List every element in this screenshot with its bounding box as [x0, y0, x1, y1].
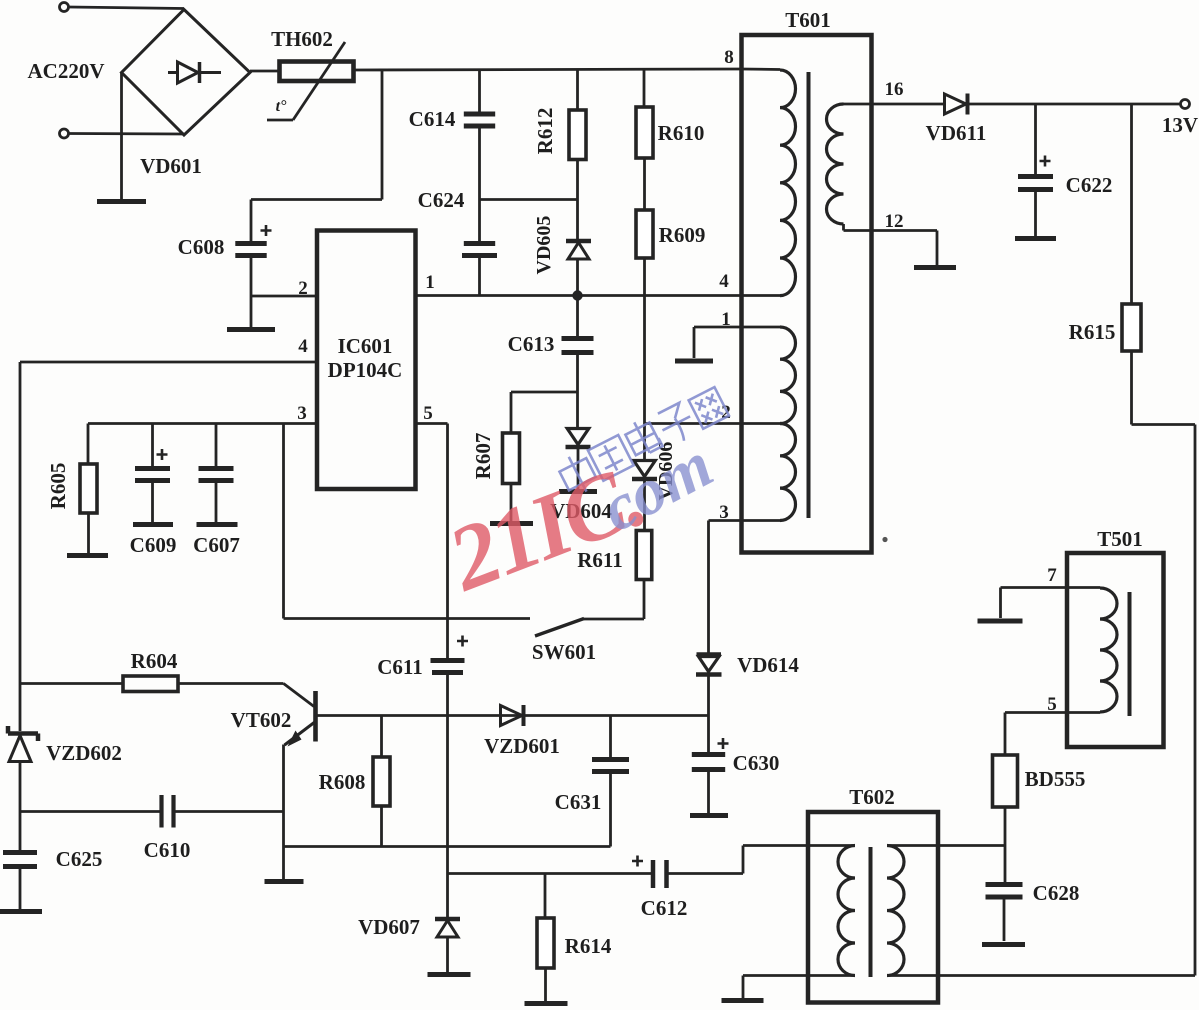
- svg-text:VD601: VD601: [140, 154, 202, 178]
- svg-text:VZD601: VZD601: [484, 734, 560, 758]
- svg-text:R609: R609: [659, 223, 706, 247]
- diode VD604: [567, 429, 589, 445]
- capacitor C612 plus: [632, 856, 643, 867]
- wire IC pin 5: [416, 422, 448, 425]
- resistor R609: [636, 210, 653, 258]
- wire C610 left: [20, 810, 160, 813]
- ground (R605): [67, 553, 108, 558]
- wire C608 to ground: [250, 258, 253, 327]
- T501 pin 7 wire: [1001, 586, 1068, 589]
- wire IC pin 1 to T601 pin 4: [416, 294, 781, 297]
- wire C607 down: [215, 483, 218, 522]
- T501 winding: [1067, 586, 1100, 589]
- capacitor C614: [464, 112, 495, 117]
- capacitor C611 plus: [457, 636, 468, 647]
- wire C614 to C624: [478, 128, 481, 241]
- capacitor C630 plus: [718, 738, 729, 749]
- diode VD606: [634, 461, 656, 477]
- wire C614 drop: [478, 70, 481, 112]
- wire main top rail: [354, 69, 742, 70]
- svg-text:8: 8: [724, 47, 734, 68]
- ground (C608): [227, 327, 275, 332]
- wire C630 down: [707, 772, 710, 813]
- T601 core: [807, 72, 811, 518]
- node junction pin1/VD605: [572, 290, 582, 300]
- wire VD604 tail: [577, 449, 580, 489]
- resistor R612: [569, 110, 586, 160]
- ground (R614): [525, 1001, 568, 1006]
- resistor R604: [123, 676, 178, 692]
- svg-text:R614: R614: [565, 934, 612, 958]
- T601 pin 2 wire: [645, 422, 781, 425]
- svg-text:C607: C607: [193, 533, 240, 557]
- svg-text:C630: C630: [733, 751, 780, 775]
- watermark 中国电子网: [555, 383, 730, 499]
- wire switch feed: [282, 424, 285, 619]
- wire T601 pin 3: [709, 519, 742, 522]
- wire mid rail: [284, 845, 611, 848]
- wire C610 right: [176, 810, 284, 813]
- transformer T601 box: [742, 35, 872, 553]
- svg-text:R604: R604: [131, 649, 178, 673]
- capacitor C612: [651, 860, 656, 888]
- svg-text:C622: C622: [1066, 173, 1113, 197]
- terminal bar (C625): [0, 909, 42, 914]
- wire C612 to T602: [669, 872, 744, 875]
- diode VD611: [945, 94, 967, 114]
- wire emitter down: [282, 745, 285, 880]
- T601 lower winding lower: [780, 424, 796, 521]
- wire bridge to TH602: [250, 70, 280, 73]
- T601 pin 1 wire: [694, 326, 742, 329]
- node AC input terminal (bottom): [60, 129, 69, 138]
- svg-text:C611: C611: [377, 655, 423, 679]
- resistor R608: [373, 757, 390, 806]
- diode VD605: [566, 239, 591, 244]
- T601 primary winding: [742, 68, 781, 71]
- svg-text:1: 1: [721, 309, 731, 330]
- diode VD607: [435, 917, 460, 922]
- svg-text:2: 2: [298, 278, 308, 299]
- wire IC pin 2: [251, 295, 317, 298]
- wire C609 down: [151, 483, 154, 522]
- ground (T601 pin12): [914, 265, 956, 270]
- zener diode VZD602: [8, 731, 38, 736]
- wire R607 tail: [510, 484, 513, 522]
- svg-text:4: 4: [719, 271, 729, 292]
- transformer T602 box: [808, 812, 938, 1003]
- svg-text:VT602: VT602: [231, 708, 292, 732]
- capacitor C610: [159, 795, 163, 828]
- wire bridge to ground: [120, 73, 123, 199]
- capacitor C631: [592, 757, 629, 762]
- svg-text:R607: R607: [471, 433, 495, 480]
- wire R610 drop: [643, 69, 646, 107]
- svg-text:VD607: VD607: [358, 915, 420, 939]
- wire R607 top: [511, 391, 578, 394]
- wire rail drop x382: [381, 70, 384, 200]
- diode VD614: [697, 652, 722, 657]
- svg-text:VD611: VD611: [926, 121, 987, 145]
- thermistor TH602 body: [280, 62, 354, 82]
- terminal bar (VD604): [559, 489, 597, 494]
- wire output rail: [968, 103, 1181, 106]
- speck: [882, 537, 887, 542]
- wire C622 drop: [1034, 104, 1037, 174]
- svg-text:1: 1: [425, 272, 435, 293]
- resistor R615: [1122, 304, 1141, 351]
- op-amp IC601 DP104C box: [317, 231, 416, 490]
- svg-text:T601: T601: [785, 8, 831, 32]
- thermistor TH602 strike: [293, 42, 345, 120]
- wire C631 down: [609, 774, 612, 847]
- bridge rectifier VD601 diamond: [122, 10, 251, 136]
- resistor R605: [80, 464, 97, 513]
- svg-text:BD555: BD555: [1025, 767, 1086, 791]
- capacitor C608: [235, 241, 266, 246]
- svg-text:C624: C624: [418, 188, 465, 212]
- resistor R610: [636, 107, 653, 158]
- wire BD555 down: [1004, 807, 1007, 882]
- ground (T501 pin7): [978, 619, 1023, 624]
- resistor R611: [636, 531, 652, 580]
- wire C631 drop: [609, 716, 612, 758]
- svg-text:T602: T602: [849, 785, 895, 809]
- wire R614 drop: [544, 874, 547, 919]
- wire IC pin 3: [88, 422, 317, 425]
- svg-text:R608: R608: [319, 770, 366, 794]
- zener diode VZD601: [501, 706, 523, 726]
- switch SW601 blade: [535, 619, 584, 637]
- ground (C630): [690, 813, 728, 818]
- capacitor C609 plus: [157, 449, 168, 460]
- capacitor C611: [431, 658, 465, 663]
- wire R604 to base: [178, 682, 284, 685]
- wire C628 down: [1003, 900, 1006, 942]
- wire left rail: [19, 362, 22, 731]
- T602 left winding: [838, 846, 855, 976]
- capacitor C609: [135, 466, 170, 471]
- T602 right winding: [887, 846, 904, 976]
- wire VD605 to node: [576, 259, 579, 296]
- svg-text:3: 3: [719, 502, 729, 523]
- wire C611 down: [446, 675, 449, 917]
- ground (VT602 emitter): [265, 879, 304, 884]
- svg-text:3: 3: [297, 403, 307, 424]
- capacitor C613: [562, 336, 594, 341]
- resistor R614: [537, 918, 554, 968]
- bridge rectifier VD601 inner diode: [168, 71, 178, 74]
- T501 core: [1128, 592, 1132, 716]
- wire C607 drop: [215, 424, 218, 467]
- node AC input terminal (top): [60, 3, 69, 12]
- transistor VT602 emitter: [285, 722, 316, 746]
- svg-text:16: 16: [885, 79, 904, 100]
- svg-text:C631: C631: [555, 790, 602, 814]
- node 13V output terminal: [1181, 100, 1190, 109]
- svg-text:SW601: SW601: [532, 640, 596, 664]
- T601 pin 16 wire: [844, 103, 945, 106]
- wire R612 drop: [576, 70, 579, 110]
- svg-text:7: 7: [1047, 565, 1057, 586]
- wire pin3 drop: [707, 521, 710, 653]
- capacitor C625: [3, 850, 37, 855]
- svg-text:IC601: IC601: [338, 334, 393, 358]
- capacitor C622 plus: [1040, 156, 1051, 167]
- wire R605 drop: [87, 424, 90, 465]
- svg-text:C612: C612: [641, 896, 688, 920]
- wire R609 down to pin2 line: [643, 258, 646, 424]
- svg-text:C610: C610: [144, 838, 191, 862]
- svg-text:T501: T501: [1097, 527, 1143, 551]
- svg-text:DP104C: DP104C: [328, 358, 403, 382]
- wire pin2 to VD606: [643, 424, 646, 460]
- wire R608 down: [380, 806, 383, 847]
- wire right rail: [1130, 351, 1133, 425]
- wire R612 to VD605: [576, 160, 579, 240]
- svg-text:C625: C625: [56, 847, 103, 871]
- svg-text:R612: R612: [533, 108, 557, 155]
- wire R614 down: [544, 968, 547, 1001]
- wire C624 to pin1 line: [478, 258, 481, 296]
- terminal bar (C609): [133, 522, 173, 527]
- svg-text:AC220V: AC220V: [28, 59, 105, 83]
- svg-text:C613: C613: [508, 332, 555, 356]
- ground (T602 left): [722, 998, 764, 1003]
- svg-text:5: 5: [423, 403, 433, 424]
- wire IC pin 4: [20, 361, 317, 364]
- T602 right top tap: [887, 844, 1005, 847]
- transformer T501 box: [1067, 553, 1164, 747]
- wire base feed: [20, 682, 123, 685]
- terminal bar (R607): [490, 521, 533, 526]
- wire R610 to R609: [643, 158, 646, 210]
- wire node to C613: [576, 296, 579, 337]
- svg-text:C614: C614: [409, 107, 456, 131]
- T601 pin 12 wire: [844, 229, 938, 232]
- svg-text:C608: C608: [178, 235, 225, 259]
- wire VD606 to R611: [643, 481, 646, 531]
- svg-text:13V: 13V: [1162, 113, 1198, 137]
- svg-text:t°: t°: [276, 98, 287, 115]
- wire VD607 to ground: [446, 937, 449, 972]
- svg-text:C628: C628: [1033, 881, 1080, 905]
- capacitor C630: [692, 752, 725, 757]
- wire C630 drop: [707, 716, 710, 753]
- T601 lower winding upper: [742, 326, 781, 329]
- wire C609 drop: [151, 424, 154, 467]
- svg-text:TH602: TH602: [271, 27, 333, 51]
- svg-text:C609: C609: [130, 533, 177, 557]
- ground (T601 pin1): [675, 359, 713, 364]
- wire C613 to VD604: [576, 355, 579, 427]
- T602 left bottom tap: [743, 974, 855, 977]
- svg-text:4: 4: [298, 336, 308, 357]
- T602 right bottom tap: [887, 974, 1195, 977]
- capacitor C622: [1018, 174, 1053, 179]
- capacitor C607: [199, 466, 234, 471]
- ground (C622): [1015, 236, 1056, 241]
- T601 secondary winding: [827, 104, 844, 224]
- capacitor C628: [986, 882, 1023, 887]
- wire R605 down: [87, 513, 90, 553]
- svg-text:VD614: VD614: [737, 653, 799, 677]
- resistor R607: [503, 433, 520, 484]
- capacitor C608 plus: [261, 225, 272, 236]
- T602 core: [869, 847, 873, 977]
- terminal bar (C607): [197, 522, 238, 527]
- wire R611 to switch: [643, 580, 646, 620]
- svg-text:VZD602: VZD602: [46, 741, 122, 765]
- ground (C628): [982, 942, 1025, 947]
- wire T501 pin5 to BD555: [1005, 711, 1067, 714]
- svg-text:R610: R610: [658, 121, 705, 145]
- wire lower rail: [448, 872, 652, 875]
- svg-text:R615: R615: [1069, 320, 1116, 344]
- wire C625 tail: [19, 869, 22, 909]
- wire R608 drop: [380, 716, 383, 758]
- ground (bridge VD601): [97, 199, 146, 204]
- transistor VT602 base bar: [313, 691, 318, 742]
- wire VZD602 to C625: [19, 762, 22, 851]
- ground (VD607): [428, 972, 471, 977]
- capacitor C624: [464, 241, 495, 246]
- wire C622 down: [1034, 192, 1037, 236]
- svg-text:R605: R605: [46, 463, 70, 510]
- wire R615 drop: [1130, 104, 1133, 304]
- svg-text:VD605: VD605: [533, 216, 555, 275]
- wire collector rail: [317, 714, 709, 717]
- wire VD614 to rail: [707, 677, 710, 716]
- svg-text:12: 12: [885, 211, 904, 232]
- resistor BD555: [993, 755, 1018, 807]
